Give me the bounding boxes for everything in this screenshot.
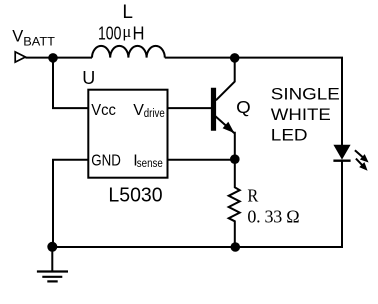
inductor L (92, 46, 165, 58)
svg-text:sense: sense (137, 158, 163, 170)
value 100uH (98, 22, 145, 43)
wire: VBATT connector to inductor (25, 57, 92, 59)
svg-text:L5030: L5030 (108, 185, 162, 207)
svg-text:LED: LED (271, 126, 308, 145)
wire: LED cathode to bottom rail (341, 161, 343, 248)
svg-text:GND: GND (91, 152, 121, 169)
svg-text:drive: drive (144, 108, 165, 120)
junction dot: VBATT node (48, 53, 58, 63)
label SINGLE WHITE LED (271, 85, 340, 145)
svg-text:V: V (133, 102, 144, 119)
pin label Isense (133, 152, 163, 170)
pin label Vdrive (133, 102, 165, 120)
svg-text:SINGLE: SINGLE (271, 85, 340, 104)
resistor R (229, 159, 240, 247)
junction dot: collector node (230, 53, 240, 63)
svg-text:WHITE: WHITE (271, 105, 331, 124)
wire: Isense pin to emitter node (168, 159, 235, 161)
svg-text:Vcc: Vcc (91, 102, 116, 119)
svg-text:100: 100 (98, 23, 121, 44)
wire: bottom rail (52, 246, 342, 248)
LED D1 (333, 145, 350, 161)
junction dot: resistor bottom node (231, 242, 241, 252)
svg-text:R: R (247, 186, 259, 206)
input connector VBATT (15, 52, 25, 62)
svg-text:μ: μ (122, 22, 131, 41)
svg-text:L: L (122, 2, 133, 23)
junction dot: emitter node (230, 154, 240, 164)
wire: inductor to top-right corner down to LED anode (165, 58, 342, 146)
svg-text:U: U (82, 68, 95, 88)
wire: VBATT node down to Vcc pin (53, 58, 88, 108)
wire: Vdrive pin to transistor base (168, 107, 212, 109)
svg-text:H: H (133, 23, 145, 44)
ground (37, 247, 68, 282)
transistor Q (214, 58, 235, 160)
junction dot: ground node (47, 242, 57, 252)
LED light arrow 1 (355, 150, 369, 162)
IC U L5030 box (88, 90, 167, 178)
svg-text:V: V (12, 27, 23, 45)
svg-text:BATT: BATT (23, 35, 55, 49)
svg-text:Q: Q (236, 97, 251, 117)
svg-text:0. 33 Ω: 0. 33 Ω (247, 206, 299, 226)
LED light arrow 2 (356, 159, 368, 171)
wire: GND pin to ground node (53, 160, 88, 247)
node VBATT label (12, 27, 55, 48)
